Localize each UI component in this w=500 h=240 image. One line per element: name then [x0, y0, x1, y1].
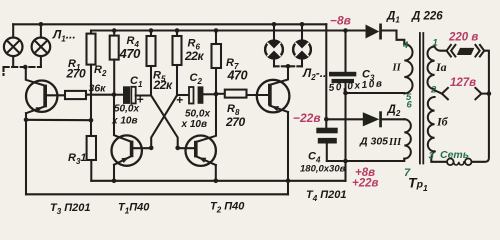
- wire T2 collector riser: [197, 94, 216, 142]
- wire common line +: [327, 159, 405, 161]
- fuse jumper 220V bar: [457, 48, 475, 55]
- node L2b rail: [300, 22, 305, 27]
- svg-text:Iа: Iа: [435, 60, 447, 74]
- svg-text:−8в: −8в: [330, 14, 351, 28]
- lamp L1b: [32, 38, 51, 57]
- svg-text:+: +: [176, 93, 183, 107]
- node lamp L1b rail junction: [39, 22, 44, 27]
- svg-text:С4: С4: [308, 151, 321, 165]
- svg-text:1: 1: [433, 38, 438, 49]
- svg-text:3: 3: [429, 151, 435, 162]
- svg-text:470: 470: [119, 46, 142, 61]
- node C3 winding5 line: [343, 91, 348, 96]
- svg-text:36к: 36к: [89, 83, 107, 95]
- node T4 emitter inner rail: [286, 179, 291, 184]
- fuse jumper 220V chevrons right: [475, 45, 484, 57]
- svg-text:6: 6: [407, 100, 413, 111]
- fuse jumper 220V chevrons left: [447, 45, 456, 57]
- svg-text:R2: R2: [94, 64, 107, 78]
- wire bottom middle rail: [26, 193, 288, 195]
- wire winding II terminal 5 line: [346, 92, 405, 94]
- wire top rail (-22V): [13, 23, 326, 25]
- svg-text:Д2: Д2: [387, 104, 401, 118]
- svg-text:Т1П40: Т1П40: [118, 202, 150, 216]
- svg-text:II: II: [392, 63, 402, 74]
- svg-text:х 10в: х 10в: [111, 116, 138, 127]
- svg-text:Т4 П201: Т4 П201: [306, 189, 347, 203]
- svg-text:22к: 22к: [153, 78, 174, 92]
- wire cross coupling B1 to T2 base: [151, 95, 178, 148]
- svg-text:Л2-..: Л2-..: [302, 66, 326, 82]
- node L2a rail: [272, 22, 277, 27]
- transistor T2: [178, 136, 216, 166]
- svg-text:С2: С2: [190, 72, 203, 86]
- svg-text:Д 226: Д 226: [411, 11, 443, 23]
- lamp L2b stem top: [301, 24, 303, 40]
- wire -22V vertical: [325, 24, 327, 127]
- wire T3 base: [47, 94, 65, 96]
- svg-text:+22в: +22в: [352, 178, 379, 190]
- resistor R6 22k: [173, 31, 182, 96]
- lamp L2a stem top: [273, 24, 275, 40]
- wire lamp L2a stem bottom: [273, 58, 275, 66]
- svg-text:Iб: Iб: [436, 115, 449, 129]
- lamp L2b: [293, 41, 311, 59]
- svg-text:С1: С1: [130, 75, 143, 89]
- socket 127V left fork: [442, 88, 448, 99]
- svg-text:Л1...: Л1...: [52, 28, 76, 44]
- svg-text:Тр1: Тр1: [408, 175, 428, 194]
- wire bottom inner rail: [91, 180, 345, 182]
- svg-text:2: 2: [430, 85, 437, 96]
- transformer winding III: [404, 119, 411, 158]
- svg-text:х 10в: х 10в: [181, 119, 208, 130]
- plug pin left: [447, 159, 454, 166]
- wire D2 anode line: [326, 118, 363, 120]
- wire T1 collector riser: [114, 95, 130, 142]
- node T1 base: [149, 146, 154, 151]
- svg-text:50,0х: 50,0х: [185, 109, 210, 120]
- resistor R4 470: [110, 31, 119, 95]
- node L2 dashed junction: [286, 64, 291, 69]
- transformer winding II: [404, 44, 412, 94]
- svg-text:470: 470: [227, 69, 248, 83]
- node R4 top: [112, 28, 117, 33]
- svg-text:−22в: −22в: [293, 111, 321, 125]
- svg-text:Т2 П40: Т2 П40: [210, 201, 245, 215]
- resistor R8 270: [216, 90, 247, 98]
- svg-text:50,0х: 50,0х: [114, 104, 139, 115]
- lamp L2a: [265, 41, 283, 59]
- node T2 base: [175, 146, 180, 151]
- transistor T1: [112, 135, 152, 165]
- resistor R7 470: [212, 31, 222, 95]
- node T3 emitter branch: [24, 118, 29, 123]
- wire lamp L1a stem bottom: [12, 56, 14, 67]
- lamp L1a: [4, 38, 23, 57]
- wire 220V selector line: [435, 47, 447, 51]
- wire lamp L2b stem bottom: [301, 58, 303, 66]
- wire T1 emitter down: [113, 165, 115, 181]
- svg-text:220 в: 220 в: [448, 32, 478, 44]
- node C1 junction: [112, 92, 117, 97]
- wire lamp L1b stem bottom: [40, 56, 42, 67]
- wire lamp L1b stem top: [40, 24, 42, 37]
- svg-text:Д1: Д1: [386, 11, 400, 25]
- transformer winding Ib: [428, 97, 435, 151]
- wire T4 collector riser: [270, 66, 288, 85]
- svg-text:180,0х30в: 180,0х30в: [300, 164, 346, 175]
- node R5 top: [149, 28, 154, 33]
- wire T4 emitter down: [287, 112, 289, 194]
- node T2 emitter rail: [214, 179, 219, 184]
- svg-text:270: 270: [225, 115, 246, 129]
- wire dashed lamp return L2: [274, 65, 302, 67]
- svg-text:Сеть: Сеть: [440, 149, 469, 161]
- wire R1 to C1 node: [86, 94, 114, 96]
- node A junction R3/R2: [89, 118, 94, 123]
- node C3 bus: [343, 28, 348, 33]
- resistor R1 270: [65, 91, 86, 99]
- svg-text:Т3 П201: Т3 П201: [50, 202, 91, 216]
- transistor T4: [257, 80, 290, 113]
- svg-text:R31: R31: [68, 152, 87, 166]
- node R7 top: [214, 28, 219, 33]
- diode D1: [366, 24, 405, 45]
- capacitor C2: [177, 86, 216, 103]
- svg-text:270: 270: [66, 67, 87, 81]
- transformer winding Ia: [428, 47, 435, 90]
- node R6 top: [175, 28, 180, 33]
- wire node A horizontal: [26, 119, 91, 121]
- transformer core: [420, 33, 423, 164]
- node 127V line: [487, 91, 492, 96]
- wire T2 emitter down: [215, 165, 217, 181]
- node C2 junction: [214, 92, 219, 97]
- plug squiggle: [454, 162, 464, 165]
- diode D2: [363, 111, 405, 127]
- transistor T3: [26, 81, 57, 114]
- wire 127V tap: [435, 90, 442, 93]
- plug pin right: [465, 159, 472, 166]
- wire lamp L1a stem top: [12, 24, 14, 37]
- node T1 emitter rail: [112, 179, 117, 184]
- svg-text:127в: 127в: [450, 77, 476, 89]
- wire dashed stub more lamps L1: [2, 67, 4, 75]
- wire winding Ib terminal 3: [431, 151, 447, 161]
- capacitor C1: [114, 86, 151, 104]
- socket 127V right fork: [475, 88, 489, 99]
- wire T3 collector riser: [26, 67, 44, 85]
- resistor R5 22k: [147, 31, 156, 96]
- wire T4 base: [247, 94, 269, 96]
- svg-text:7: 7: [404, 167, 411, 179]
- node common C3 stem: [343, 159, 348, 164]
- svg-text:Д 305: Д 305: [359, 136, 388, 148]
- wire bus -8V: [91, 29, 366, 31]
- wire dashed lamp return L1: [4, 66, 41, 68]
- wire cross coupling B2 to T1 base: [151, 95, 177, 148]
- resistor R2 36k: [87, 31, 96, 121]
- wire right mains vertical: [472, 51, 489, 162]
- svg-text:III: III: [388, 137, 402, 148]
- capacitor C4: [316, 128, 337, 161]
- svg-text:22к: 22к: [184, 49, 205, 63]
- resistor R3: [87, 120, 96, 181]
- capacitor C3: [329, 31, 356, 181]
- node -22V junction: [324, 117, 329, 122]
- wire T3 emitter down: [25, 113, 27, 194]
- node L1 dashed junction: [23, 65, 28, 70]
- svg-text:4: 4: [402, 40, 409, 51]
